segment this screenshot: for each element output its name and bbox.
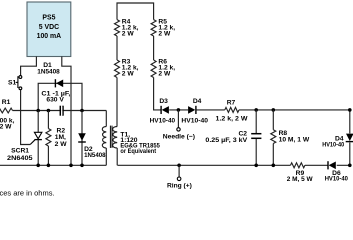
svg-text:0.25 µF, 3 kV: 0.25 µF, 3 kV [205,137,247,144]
svg-text:S1: S1 [8,79,16,86]
svg-text:2 W: 2 W [158,30,171,37]
diode D2 [78,133,86,142]
terminal Needle [177,128,180,131]
resistor R2 [46,129,51,147]
wire PS5 left lead to S1 [21,57,37,76]
svg-text:Ring (+): Ring (+) [167,183,192,190]
wire S1 to gate [21,90,31,145]
wire D4 to R7 [196,109,225,111]
svg-text:HV10-40: HV10-40 [322,141,344,148]
wire T1 secondary bottom lead [116,148,118,165]
junction SCR anode top [36,109,40,113]
wire PS5 right lead to right rail [62,57,71,166]
svg-text:D3: D3 [159,98,168,105]
wire R8 top lead [272,110,274,130]
junction SCR cathode bottom [36,164,40,168]
svg-text:or Equivalent: or Equivalent [120,148,156,155]
wire C2 bottom lead [255,139,257,166]
diode D4 [188,106,196,114]
wire D2 branch [81,111,83,166]
wire right rail top [349,110,351,133]
svg-text:2N6405: 2N6405 [7,155,33,162]
resistor R1 [0,108,13,113]
resistor R8 [271,130,276,144]
svg-text:100 mA: 100 mA [37,33,62,40]
junction needle tap [177,108,181,112]
wire R2 top lead [47,111,49,129]
diode D1 [55,79,63,87]
svg-text:HV10-40: HV10-40 [150,117,176,124]
resistor R9 [291,163,305,168]
svg-text:10 M, 1 W: 10 M, 1 W [279,137,310,144]
wire T1 primary top lead [105,111,107,127]
wire needle drop [177,110,179,128]
diode D3 [161,106,169,114]
svg-text:D4: D4 [193,98,202,105]
bottom rail left section [0,164,106,166]
resistor R7 [225,107,239,112]
resistor R6 [151,60,156,78]
svg-text:HV10-40: HV10-40 [325,176,348,183]
svg-text:2 W: 2 W [158,71,171,78]
junction ring tap [177,164,181,168]
svg-text:HV10-40: HV10-40 [181,117,208,124]
power supply PS5 box [27,2,71,57]
wire ring drop [178,165,180,177]
diode D4 right rail [346,134,353,142]
wire R7 to right rail [239,109,350,111]
junction C2 bottom [254,164,258,168]
svg-text:R1: R1 [2,99,11,106]
svg-text:2 W: 2 W [0,124,12,131]
junction R8 bottom [272,164,276,168]
resistor R4 [115,20,120,36]
svg-text:1N5408: 1N5408 [37,69,60,76]
wire SCR anode [37,111,39,132]
junction R8 top [272,108,276,112]
wire SCR cathode [37,140,39,166]
terminal Ring [177,177,181,181]
wire D1 branch [38,83,82,110]
bottom rail right section [117,164,349,166]
diode D6 [328,161,336,169]
wire right rail bottom [349,143,351,166]
capacitor C2 [251,134,261,139]
capacitor C1 [60,106,63,116]
svg-text:Needle (−): Needle (−) [163,134,195,141]
thyristor SCR1 [30,132,42,144]
junction R2 bottom [47,164,51,168]
transformer T1 core [110,126,112,148]
wire C2 top lead [255,110,257,133]
resistor R3 [115,60,120,78]
svg-text:ces are in ohms.: ces are in ohms. [0,189,55,198]
svg-text:R7: R7 [227,99,236,106]
transformer T1 secondary coil [113,127,118,149]
wire R8 bottom lead [272,144,274,166]
svg-text:1N5408: 1N5408 [84,152,106,159]
wire R2 bottom lead [47,146,49,165]
wire D3 to D4 [169,109,188,111]
svg-text:630 V: 630 V [46,96,64,103]
wire T1 primary bottom lead [105,148,107,165]
transformer T1 primary coil [102,127,106,149]
wire R1 to rail [13,110,107,112]
junction bottom right [348,164,352,168]
svg-text:PS5: PS5 [42,14,55,21]
junction PS5 rail bottom [69,164,73,168]
switch S1 lever [17,76,19,88]
svg-text:SCR1: SCR1 [11,147,29,154]
label S1 tick [16,81,18,83]
svg-text:1.2 k, 2 W: 1.2 k, 2 W [216,115,249,122]
wire R3 column [117,3,161,127]
svg-text:2 W: 2 W [122,30,135,37]
junction R2 top [47,109,51,113]
junction top right [348,108,352,112]
svg-text:2 M, 5 W: 2 M, 5 W [287,176,313,183]
resistor R5 [151,20,156,36]
svg-text:2 W: 2 W [55,141,68,148]
switch S1 bottom contact [19,87,22,90]
junction D2 top [80,109,84,113]
switch S1 top contact [19,76,22,79]
junction D2 bottom [80,164,84,168]
svg-text:5 VDC: 5 VDC [39,24,59,31]
svg-text:2 W: 2 W [122,71,135,78]
junction C2 top [254,108,258,112]
